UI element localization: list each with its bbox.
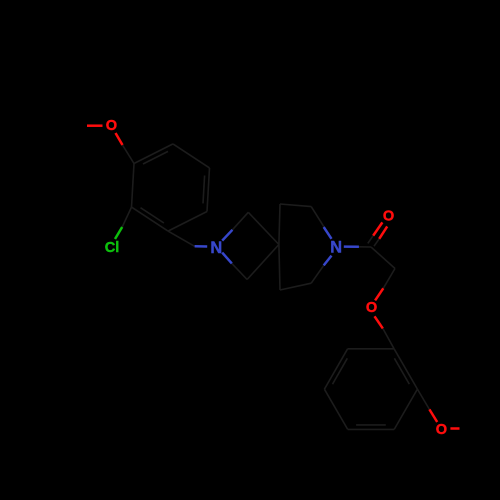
svg-text:O: O: [436, 422, 447, 438]
svg-text:N: N: [210, 239, 222, 257]
svg-text:Cl: Cl: [105, 240, 120, 256]
svg-text:O: O: [366, 300, 377, 316]
svg-text:N: N: [330, 239, 342, 257]
svg-text:O: O: [383, 209, 394, 225]
svg-text:O: O: [106, 118, 117, 134]
